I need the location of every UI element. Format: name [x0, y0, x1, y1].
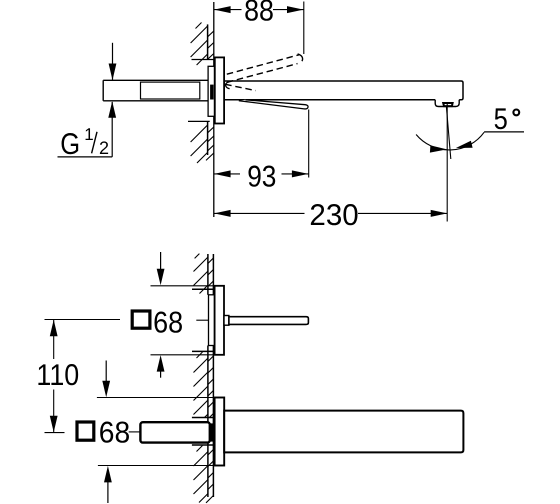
- open lever dashed tip: [298, 54, 303, 61]
- black connector bar: [210, 85, 214, 100]
- rough-in body (top view): [208, 66, 214, 116]
- spout body (top view): [224, 81, 463, 100]
- arrow above spout plate: [105, 361, 107, 382]
- closed lever (solid, below spout): [239, 100, 308, 109]
- spout body (bottom view): [224, 411, 463, 453]
- svg-text:88: 88: [244, 0, 274, 27]
- dimension 88: [214, 2, 304, 55]
- svg-text:68: 68: [153, 306, 183, 339]
- extension line plate bottom (handle): [151, 354, 215, 356]
- extension line plate top (handle): [151, 285, 215, 287]
- hole edge lines (spout valve): [192, 417, 214, 419]
- wall strip verticals (bottom view): [208, 254, 214, 497]
- aerator: [443, 103, 452, 106]
- hatching section C (below valve hole): [194, 446, 214, 503]
- wall hole bottom edge: [188, 120, 210, 122]
- dimension 110: [45, 320, 121, 433]
- lever pivot detail: [226, 82, 230, 89]
- svg-text:G: G: [60, 128, 80, 161]
- svg-text:93: 93: [247, 161, 276, 194]
- square-68 label (spout): [77, 422, 94, 440]
- open lever (dashed): [225, 55, 299, 91]
- 5 degree tilted line: [446, 107, 450, 159]
- 5 degree label: [484, 131, 524, 133]
- pipe nipple section: [141, 82, 200, 99]
- black connector bar (bottom): [210, 423, 214, 441]
- escutcheon plate (top view): [215, 57, 224, 123]
- extension line plate bottom (spout unit): [98, 465, 215, 467]
- arc arrowheads: [430, 145, 447, 152]
- svg-text:110: 110: [36, 359, 79, 392]
- valve body behind wall: [140, 422, 209, 442]
- wall strip inner line (top section): [207, 24, 209, 155]
- handle bar: [229, 317, 309, 325]
- hatching section B (between holes): [194, 352, 214, 418]
- dimension 93: [214, 110, 309, 178]
- wall hole top edge: [192, 59, 214, 61]
- svg-text:5: 5: [494, 103, 508, 136]
- dimension 230: [214, 104, 447, 222]
- svg-text:230: 230: [309, 199, 358, 232]
- arrow above handle plate: [160, 252, 162, 270]
- wall hatching upper section: [191, 23, 214, 66]
- arrow below spout plate: [107, 482, 109, 503]
- handle stub: [224, 316, 229, 326]
- G 1/2 label: [58, 43, 113, 157]
- arrow below handle plate: [160, 371, 162, 378]
- square-68 label (handle): [132, 311, 150, 328]
- spout escutcheon plate (bottom view): [215, 398, 225, 466]
- wall face line / extension line (left reference): [213, 2, 215, 217]
- hatching section A (above handle plate): [194, 254, 214, 294]
- outlet housing: [435, 100, 459, 107]
- svg-text:2: 2: [99, 138, 109, 158]
- svg-text:1: 1: [84, 125, 93, 144]
- svg-text:68: 68: [99, 417, 130, 450]
- rough-in body (handle unit): [209, 295, 215, 346]
- 5 degree arc: [416, 132, 484, 150]
- supply pipe G1/2: [103, 80, 208, 101]
- wall hatching lower section: [191, 125, 214, 163]
- hole edge lines (handle unit): [192, 288, 213, 290]
- handle escutcheon plate: [215, 286, 224, 355]
- extension line plate top (spout unit): [97, 397, 215, 399]
